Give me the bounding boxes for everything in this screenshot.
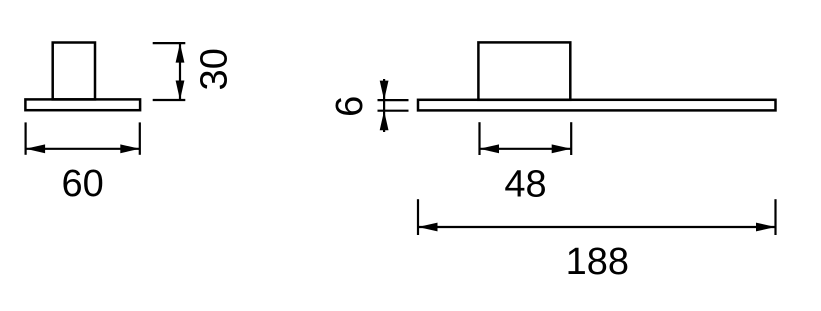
dimension 30 line [179, 43, 181, 100]
dimension 48 line [480, 148, 572, 150]
dimension 188 label [566, 241, 629, 283]
dimension 30 arrow down [176, 81, 185, 101]
dimension 60 line [26, 148, 140, 150]
dimension 188 arrow right [756, 223, 776, 232]
dimension 6 line [383, 79, 385, 132]
dimension 30 extension lines [153, 43, 186, 100]
svg-text:60: 60 [61, 163, 103, 205]
front view block [478, 42, 570, 99]
dimension 188 arrow left [418, 223, 438, 232]
dimension 48 extension lines [480, 122, 572, 155]
dimension 48 label [504, 164, 546, 206]
dimension 6 label [329, 96, 371, 117]
dimension 6 arrow down [380, 81, 389, 101]
dimension 60 arrow left [26, 144, 45, 153]
svg-text:188: 188 [566, 241, 629, 283]
dimension 60 extension lines [26, 122, 140, 154]
dimension 188 line [418, 226, 776, 228]
dimension 30 label [193, 48, 235, 90]
svg-text:48: 48 [504, 164, 546, 206]
dimension 60 label [61, 163, 103, 205]
svg-text:6: 6 [329, 96, 371, 117]
dimension 30 arrow up [176, 43, 185, 63]
dimension 188 extension lines [418, 199, 776, 235]
front view base plate [418, 100, 776, 111]
dimension 6 arrow up [380, 111, 389, 131]
side view base plate [25, 99, 140, 110]
side view block [53, 43, 95, 100]
dimension 60 arrow right [120, 144, 140, 153]
dimension 6 extension lines [378, 100, 409, 111]
dimension 48 arrow right [552, 144, 572, 153]
svg-text:30: 30 [193, 48, 235, 90]
dimension 48 arrow left [480, 144, 500, 153]
